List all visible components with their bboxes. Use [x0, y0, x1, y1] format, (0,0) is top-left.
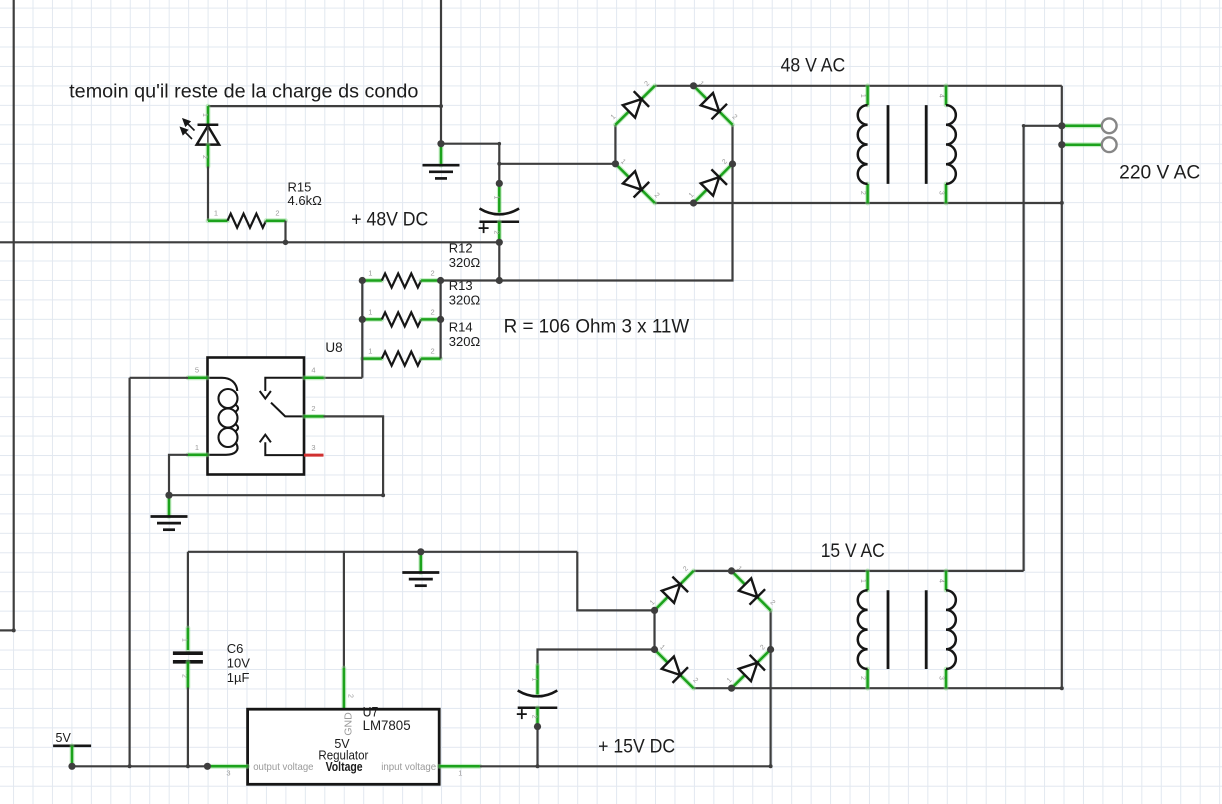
svg-text:10V: 10V [227, 655, 250, 670]
node cap2 bottom junction [534, 723, 541, 730]
svg-text:2: 2 [201, 155, 208, 159]
wire cap to bridge1 AC-left [499, 163, 615, 165]
node ground2 junction [417, 548, 424, 555]
bridge2 right side wire [769, 610, 771, 649]
svg-text:320Ω: 320Ω [449, 334, 481, 349]
svg-text:1: 1 [859, 579, 866, 583]
node 5V junction [68, 763, 75, 770]
svg-text:5V: 5V [56, 731, 72, 745]
bridge2 left side wire [653, 610, 655, 649]
svg-text:1: 1 [195, 443, 199, 452]
svg-text:2: 2 [859, 191, 866, 195]
resistor R13 pin1 [362, 317, 382, 322]
LED D1 cathode bar [198, 124, 219, 127]
capacitor C6 plate1 [173, 651, 203, 655]
capacitor C9 pin2 [535, 708, 540, 727]
node left frame end [12, 628, 16, 632]
wire relay pin2 bend [169, 416, 383, 495]
diode D_B2_TR pin line [732, 571, 771, 611]
svg-text:1: 1 [531, 677, 538, 681]
wire cap2 bottom feed [536, 727, 538, 767]
capacitor C5 plus sign [479, 223, 489, 233]
diode D_B1_BR pin line [694, 164, 733, 203]
diode D_B2_BR pin line [732, 650, 771, 689]
svg-text:1: 1 [368, 347, 372, 356]
transformer T1 secondary coil [946, 105, 956, 184]
svg-text:4.6kΩ: 4.6kΩ [288, 193, 323, 208]
wire cap2 top corner [538, 650, 655, 666]
relay U8 coil [208, 378, 239, 455]
resistor R12 pin1 [362, 278, 382, 283]
diode D_B1_TL cathode bar [634, 91, 649, 107]
resistor R14 pin2 [421, 356, 441, 361]
diode D_B2_TL cathode bar [672, 577, 688, 593]
bridge1 top edge wire [655, 85, 694, 87]
wire 220V feed down to T2 [1022, 126, 1024, 571]
svg-text:1: 1 [201, 113, 208, 117]
node bridge2 bottom [728, 685, 735, 692]
bridge2 bottom edge wire [694, 687, 732, 689]
node R15 rail junction [283, 240, 289, 246]
svg-text:1: 1 [181, 638, 188, 642]
capacitor C5 curved plate [480, 209, 520, 215]
svg-text:15 V AC: 15 V AC [821, 541, 885, 562]
svg-text:1: 1 [368, 269, 372, 278]
bridge2 top edge wire [694, 570, 732, 572]
svg-text:C6: C6 [227, 641, 244, 656]
svg-text:1: 1 [859, 94, 866, 98]
relay U8 pin2 [304, 414, 324, 419]
wire bottom rail left [72, 765, 207, 767]
capacitor C5 pin2 [497, 222, 502, 243]
relay U8 pin5 [188, 375, 208, 380]
svg-text:2: 2 [431, 269, 435, 278]
node top junction A [437, 140, 444, 147]
resistor R15 pin1 [208, 218, 228, 223]
svg-text:Voltage: Voltage [326, 760, 363, 774]
regulator U7 box [248, 709, 440, 784]
transformer T2 pin 3 [944, 669, 949, 688]
wire C6 top feed [187, 552, 189, 628]
wire 220V bus vertical [1061, 126, 1063, 688]
svg-text:3: 3 [938, 191, 945, 195]
wire bottom rail right [480, 650, 771, 767]
node C5 top junction [496, 180, 503, 187]
transformer T2 pin 2 [865, 669, 870, 688]
terminal P2 pin [1062, 142, 1102, 147]
svg-text:5: 5 [195, 365, 199, 374]
wire top feed vertical [440, 0, 442, 144]
svg-text:+ 15V DC: + 15V DC [598, 736, 675, 757]
ground GND3 pin [167, 497, 172, 517]
svg-text:R12: R12 [449, 241, 473, 256]
node left rail T [128, 764, 132, 768]
U7 pin1 [439, 764, 480, 769]
svg-text:input voltage: input voltage [381, 761, 436, 773]
wire left frame stub [0, 629, 14, 631]
node resistor bus junction [496, 277, 503, 284]
svg-text:2: 2 [431, 307, 435, 316]
svg-text:output voltage: output voltage [253, 761, 313, 773]
diode D_B1_BR cathode bar [711, 169, 727, 185]
node 220V link corner [1022, 124, 1026, 128]
U7 pin3 [207, 764, 247, 769]
svg-text:2: 2 [859, 676, 866, 680]
svg-text:2: 2 [275, 209, 279, 218]
power flag 5V pin [70, 746, 75, 767]
diode D_B2_BL pin line [655, 650, 694, 689]
wire LED top horizontal [208, 105, 441, 107]
capacitor C9 plus sign [517, 709, 527, 719]
diode D_B1_BL pin line [615, 164, 654, 203]
resistor R15 pin2 [266, 218, 286, 223]
transformer T2 primary coil [858, 590, 868, 669]
diode D_B1_TR cathode bar [712, 104, 728, 120]
diode D_B2_BR cathode bar [750, 655, 765, 671]
relay U8 pin3 red [304, 454, 324, 457]
resistor R12 body [382, 274, 421, 288]
diode D_B1_BR triangle [701, 177, 720, 196]
svg-text:3: 3 [938, 676, 945, 680]
LED D1 inner pin line [207, 127, 209, 145]
svg-text:+ 48V DC: + 48V DC [351, 210, 428, 231]
node 220V AC bottom T [1060, 201, 1064, 205]
relay U8 switch bottom contact [265, 442, 304, 455]
diode D_B1_TL triangle [623, 99, 642, 118]
diode D_B2_TR cathode bar [750, 589, 766, 605]
node bridge1 bottom [690, 199, 697, 206]
svg-text:220 V AC: 220 V AC [1119, 163, 1200, 184]
node 220V bottom junction [1058, 141, 1065, 148]
bridge1 right side wire [731, 125, 733, 164]
node C6 rail T [186, 764, 190, 768]
node cap top corner [498, 142, 502, 146]
capacitor C9 curved plate [518, 691, 558, 697]
svg-text:1: 1 [458, 769, 462, 778]
node bridge1 top [690, 82, 697, 89]
diode D_B2_TL pin line [655, 571, 694, 611]
node relay pin2 corner [381, 493, 385, 497]
wire R15 to 48V rail [284, 221, 286, 243]
svg-text:R = 106 Ohm 3 x 11W: R = 106 Ohm 3 x 11W [504, 316, 690, 337]
ground GND2 bars [402, 573, 439, 586]
node rail corner [769, 764, 773, 768]
wire LED to R15 [207, 167, 209, 221]
terminal P1 pin [1062, 123, 1102, 128]
svg-text:2: 2 [347, 694, 354, 698]
wire bridge2 top to T2 [732, 570, 1024, 572]
node bridge2 plus [767, 646, 774, 653]
svg-text:4: 4 [311, 365, 315, 374]
capacitor C6 pin1 [185, 628, 190, 650]
node LED wire junction [439, 104, 443, 108]
capacitor C5 straight plate [480, 221, 520, 224]
node bridge1 plus [729, 160, 736, 167]
wire C6 top rail [188, 551, 577, 553]
svg-text:1: 1 [492, 195, 499, 199]
transformer T1 primary coil [858, 105, 868, 184]
resistor R15 body [228, 214, 267, 228]
svg-text:1: 1 [368, 307, 372, 316]
relay U8 switch top contact [265, 378, 304, 391]
ground GND3 bars [151, 517, 188, 530]
wire left frame vertical [13, 0, 15, 630]
node left rail R12 [359, 277, 366, 284]
svg-text:2: 2 [492, 230, 499, 234]
resistor R12 pin2 [421, 278, 441, 283]
wire bridge1 bottom to T1 and terminal riser [694, 202, 1062, 204]
transformer T2 pin 1 [865, 571, 870, 590]
svg-text:R14: R14 [449, 320, 473, 335]
wire 220V link to T2 [1024, 125, 1062, 127]
wire C6 bottom feed [187, 688, 189, 767]
svg-text:temoin qu'il reste de la charg: temoin qu'il reste de la charge ds condo [69, 81, 418, 102]
node C5 bottom junction [496, 239, 503, 246]
svg-text:48 V AC: 48 V AC [781, 56, 846, 77]
diode D_B1_TR triangle [701, 93, 720, 112]
ground GND1 bars [423, 165, 460, 178]
terminal P1 circle [1102, 118, 1117, 133]
transformer T1 pin 3 [944, 184, 949, 203]
transformer T1 core bars [888, 105, 926, 184]
ground GND2 pin [418, 553, 423, 573]
svg-text:3: 3 [311, 443, 315, 452]
node bridge1 AC left [612, 160, 619, 167]
svg-text:U8: U8 [325, 340, 342, 355]
svg-text:4: 4 [938, 94, 945, 98]
LED D1 pin2 [206, 145, 211, 167]
diode D_B2_TL triangle [662, 584, 680, 603]
transformer T1 pin 4 [944, 86, 949, 105]
capacitor C9 pin1 [535, 665, 540, 694]
svg-text:1µF: 1µF [227, 670, 250, 685]
node right rail R13 [437, 316, 444, 323]
wire bridge2 bottom to T2 [732, 687, 1062, 689]
diode D_B1_BL triangle [623, 171, 642, 190]
capacitor C6 plate2 [173, 660, 203, 664]
relay U8 switch blade [271, 403, 304, 417]
power flag 5V bar [53, 744, 91, 747]
relay U8 pin4 [304, 375, 324, 380]
resistor R14 pin1 [362, 356, 382, 361]
node left rail R13 [359, 316, 366, 323]
relay U8 box [208, 358, 305, 475]
node T2 bottom corner [1060, 686, 1064, 690]
transformer T1 pin 2 [865, 184, 870, 203]
node bridge2 AC left bottom [651, 646, 658, 653]
wire relay pin1 bend [169, 455, 188, 495]
bridge1 left side wire [614, 125, 616, 164]
wire 48V DC rail [0, 241, 499, 243]
capacitor C5 pin1 [497, 183, 502, 212]
svg-text:320Ω: 320Ω [449, 255, 481, 270]
resistor R14 body [382, 352, 421, 366]
bridge1 bottom edge wire [655, 202, 694, 204]
LED D1 pin1 [206, 106, 211, 125]
node 220V top junction [1058, 122, 1065, 129]
node U7 pin3 junction [204, 763, 211, 770]
wire T1 secondary top corner [1061, 86, 1063, 126]
node C9 rail T [536, 764, 540, 768]
wire resistor right rail [440, 281, 442, 359]
LED D1 arrows [181, 119, 195, 139]
wire relay pin4 link [324, 377, 363, 379]
terminal P2 circle [1102, 137, 1117, 152]
ground GND1 pin [439, 146, 444, 166]
wire bridge1 top to T1 [694, 85, 1062, 87]
diode D_B2_TR triangle [739, 578, 758, 597]
node right rail R12 [437, 277, 444, 284]
transformer T1 pin 1 [865, 86, 870, 105]
svg-text:2: 2 [311, 404, 315, 413]
wire rail to bridge2 corner [577, 552, 654, 611]
transformer T2 core bars [888, 590, 926, 669]
LED D1 triangle [197, 126, 219, 145]
wire U7 gnd riser [343, 552, 345, 668]
wire junction to cap top [441, 144, 499, 184]
node bridge2 top [728, 567, 735, 574]
svg-text:LM7805: LM7805 [363, 718, 411, 733]
diode D_B2_BR triangle [739, 663, 758, 682]
capacitor C9 straight plate [518, 707, 558, 710]
diode D_B1_BL cathode bar [634, 182, 650, 198]
resistor R13 pin2 [421, 317, 441, 322]
node bridge2 AC left top [651, 607, 658, 614]
node relay ground junction [165, 492, 172, 499]
svg-text:3: 3 [226, 769, 230, 778]
diode D_B1_TR pin line [694, 86, 733, 125]
wire left rail down [129, 378, 131, 767]
wire C5 bottom to resistor bus [498, 242, 500, 280]
resistor R13 body [382, 312, 421, 326]
svg-text:1: 1 [214, 209, 218, 218]
U7 pin2 GND [341, 668, 346, 709]
wire resistor left rail [361, 281, 363, 378]
capacitor C6 pin2 [185, 662, 190, 688]
diode D_B1_TL pin line [615, 86, 654, 125]
transformer T2 pin 4 [944, 571, 949, 590]
relay U8 pin1 [188, 452, 208, 457]
transformer T2 secondary coil [946, 590, 956, 669]
wire relay pin5 to left rail [130, 377, 188, 379]
diode D_B2_BL triangle [662, 657, 681, 676]
wire resistor bus to bridge1 [441, 164, 733, 281]
diode D_B2_BL cathode bar [673, 667, 689, 683]
svg-text:4: 4 [938, 579, 945, 583]
node cap riser T [497, 162, 501, 166]
svg-text:GND: GND [343, 712, 355, 736]
svg-text:2: 2 [431, 347, 435, 356]
svg-text:2: 2 [531, 715, 538, 719]
svg-text:320Ω: 320Ω [449, 292, 481, 307]
